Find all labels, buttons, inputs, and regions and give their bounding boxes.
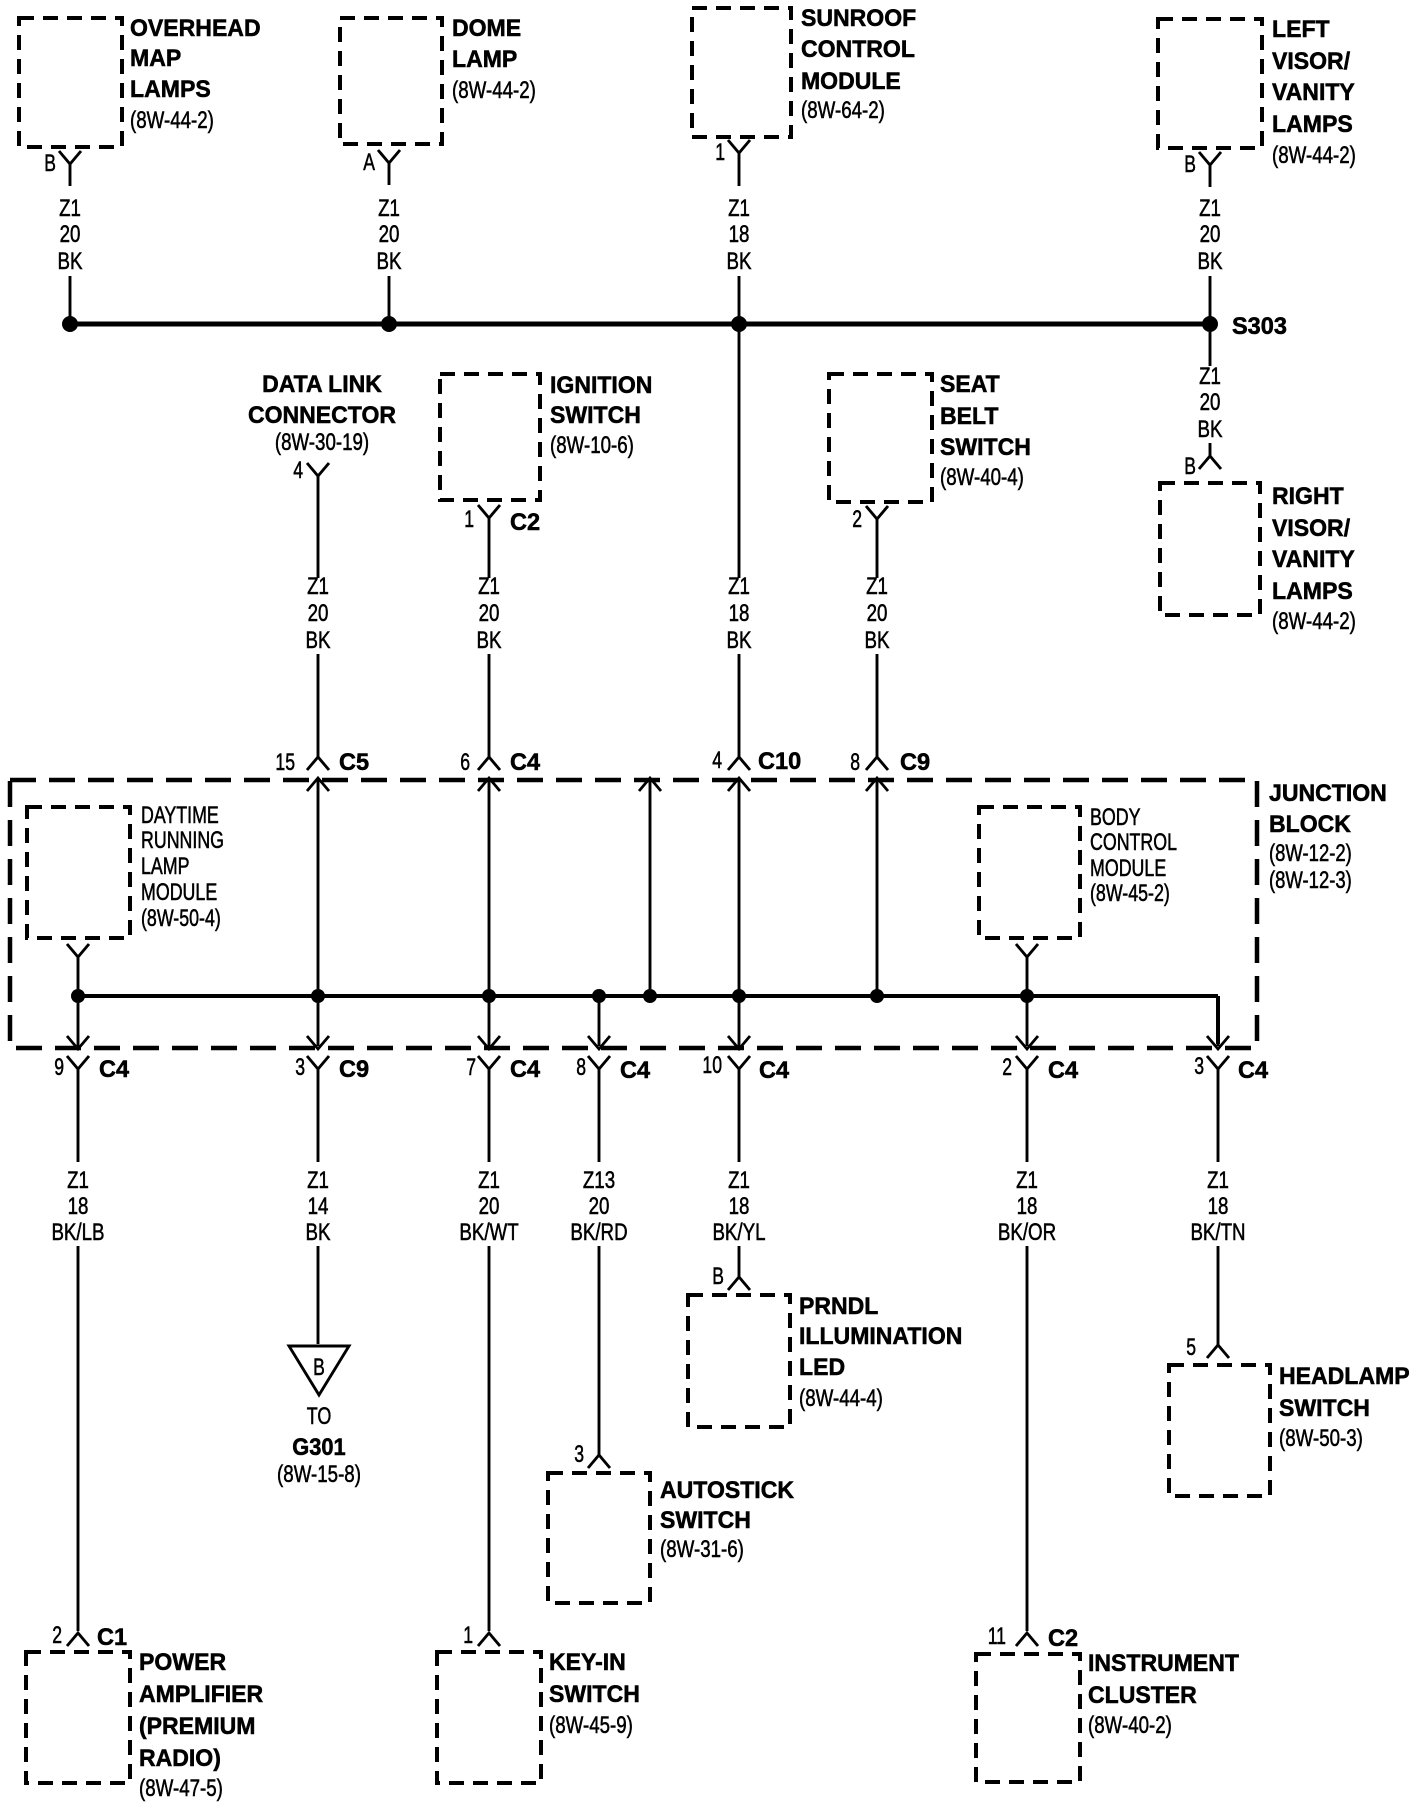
svg-text:DOME: DOME — [452, 15, 521, 42]
svg-text:BK: BK — [1198, 248, 1223, 275]
svg-text:(8W-30-19): (8W-30-19) — [275, 429, 369, 456]
wire: C9 lead into junction block — [866, 778, 888, 996]
svg-text:PRNDL: PRNDL — [799, 1293, 878, 1320]
wire: junction block exit lead at C9 pin 3 — [307, 996, 329, 1049]
svg-text:18: 18 — [1017, 1193, 1038, 1220]
svg-text:BK: BK — [1198, 416, 1223, 443]
svg-text:SWITCH: SWITCH — [660, 1507, 751, 1534]
svg-text:C9: C9 — [339, 1056, 369, 1083]
svg-text:BK: BK — [727, 248, 752, 275]
svg-text:20: 20 — [379, 221, 400, 248]
wire: junction block exit lead at C4 pin 8 — [588, 996, 610, 1049]
svg-text:HEADLAMP: HEADLAMP — [1279, 1363, 1410, 1390]
svg-text:2: 2 — [1002, 1054, 1012, 1081]
svg-text:20: 20 — [1200, 221, 1221, 248]
svg-text:Z1: Z1 — [1199, 195, 1221, 222]
svg-text:14: 14 — [308, 1193, 329, 1220]
svg-text:C1: C1 — [97, 1624, 127, 1651]
svg-text:C4: C4 — [510, 749, 541, 776]
svg-text:18: 18 — [729, 600, 750, 627]
wire Z1 18 BK from Sunroof Control Module to S303 bus — [727, 152, 752, 321]
svg-text:20: 20 — [60, 221, 81, 248]
connector C2 pin 1 of Ignition Switch — [464, 505, 540, 536]
svg-text:(8W-47-5): (8W-47-5) — [139, 1775, 223, 1802]
node: internal bus junction dot at BCM/C4-2 — [1020, 989, 1034, 1003]
svg-text:LEFT: LEFT — [1272, 16, 1330, 43]
connector C4 pin 10 at junction block bottom — [702, 1052, 789, 1162]
connector C4 pin 7 at junction block bottom — [466, 1054, 541, 1162]
connector of Body Control Module to internal bus — [1016, 944, 1038, 996]
svg-text:DAYTIME: DAYTIME — [141, 802, 219, 829]
component box: Junction Block (8W-12-2)(8W-12-3) — [10, 780, 1387, 1048]
svg-text:C4: C4 — [620, 1057, 651, 1084]
svg-text:18: 18 — [729, 1193, 750, 1220]
component box: Instrument Cluster (8W-40-2) — [976, 1650, 1239, 1782]
svg-text:CONTROL: CONTROL — [1090, 829, 1177, 856]
svg-text:(8W-45-2): (8W-45-2) — [1090, 880, 1170, 907]
connector C4 pin 6 at junction block top — [460, 749, 541, 776]
svg-text:10: 10 — [702, 1052, 722, 1079]
svg-text:18: 18 — [729, 221, 750, 248]
svg-text:SUNROOF: SUNROOF — [801, 5, 916, 32]
wire Z1 18 BK/LB from junction block C4 pin 9 to Power Amplifier — [51, 1167, 104, 1631]
svg-text:VANITY: VANITY — [1272, 79, 1355, 106]
svg-text:CLUSTER: CLUSTER — [1088, 1682, 1197, 1709]
svg-text:Z1: Z1 — [1207, 1167, 1229, 1194]
node: internal bus junction dot at C4-8 — [592, 989, 606, 1003]
svg-text:Z1: Z1 — [478, 573, 500, 600]
wire: junction block internal ground bus — [78, 996, 1218, 1044]
svg-text:BK: BK — [377, 248, 402, 275]
svg-text:3: 3 — [295, 1054, 305, 1081]
svg-text:BK: BK — [58, 248, 83, 275]
svg-text:9: 9 — [54, 1054, 64, 1081]
svg-text:20: 20 — [589, 1193, 610, 1220]
connector C2 pin 11 of Instrument Cluster — [988, 1623, 1078, 1652]
svg-text:B: B — [44, 150, 56, 177]
component box: PRNDL Illumination LED (8W-44-4) — [688, 1293, 962, 1427]
svg-text:RIGHT: RIGHT — [1272, 483, 1344, 510]
svg-text:20: 20 — [867, 600, 888, 627]
wire Z1 18 BK/TN from junction block C4 pin 3 to Headlamp Switch — [1190, 1167, 1245, 1345]
wire: junction block exit lead at C4 pin 3 — [1207, 1036, 1229, 1049]
svg-text:LAMPS: LAMPS — [1272, 111, 1353, 138]
svg-text:C4: C4 — [99, 1056, 130, 1083]
svg-text:MODULE: MODULE — [801, 68, 901, 95]
svg-text:(PREMIUM: (PREMIUM — [139, 1713, 256, 1740]
component box: Body Control Module (8W-45-2) inside junction block — [979, 804, 1177, 938]
svg-text:C4: C4 — [759, 1057, 790, 1084]
node: internal bus junction dot at C5/C9 — [311, 989, 325, 1003]
connector pin B of Overhead Map Lamps — [44, 150, 81, 177]
connector C5 pin 15 at junction block — [275, 749, 369, 776]
svg-text:8: 8 — [850, 749, 860, 776]
svg-text:LAMP: LAMP — [452, 46, 517, 73]
svg-text:BK: BK — [306, 627, 331, 654]
component box: Right Visor/Vanity Lamps (8W-44-2) — [1160, 483, 1356, 635]
component box: Headlamp Switch (8W-50-3) — [1169, 1363, 1410, 1496]
component box: Power Amplifier Premium Radio (8W-47-5) — [26, 1649, 263, 1802]
svg-text:SEAT: SEAT — [940, 371, 1000, 398]
connector C10 pin 4 at junction block top — [712, 747, 801, 775]
svg-text:Z1: Z1 — [59, 195, 81, 222]
svg-text:POWER: POWER — [139, 1649, 226, 1676]
svg-text:7: 7 — [466, 1054, 476, 1081]
component box: Autostick Switch (8W-31-6) — [548, 1473, 795, 1603]
connector C4 pin 9 at junction block bottom — [54, 1054, 130, 1162]
wire Z1 18 BK from Sunroof splice down to junction block C10 — [727, 330, 752, 757]
wire: junction block exit lead at C4 pin 10 — [728, 996, 750, 1049]
svg-text:C4: C4 — [1238, 1057, 1269, 1084]
component box: Dome Lamp (8W-44-2) — [340, 15, 536, 144]
connector pin B of Left Visor/Vanity Lamps — [1184, 151, 1221, 178]
svg-text:2: 2 — [852, 506, 862, 533]
svg-text:B: B — [712, 1263, 724, 1290]
svg-text:1: 1 — [715, 139, 725, 166]
svg-text:LED: LED — [799, 1354, 845, 1381]
svg-text:TO: TO — [307, 1403, 332, 1430]
svg-text:BK/YL: BK/YL — [712, 1219, 765, 1246]
connector pin B of Right Visor/Vanity Lamps — [1184, 453, 1221, 480]
node: splice S303 — [1202, 313, 1287, 340]
svg-text:Z1: Z1 — [1016, 1167, 1038, 1194]
svg-text:C2: C2 — [1048, 1625, 1078, 1652]
node: splice dot at Overhead Map Lamps wire on S303 bus — [62, 316, 78, 332]
wire: C4 pin 6 lead into junction block — [478, 778, 500, 996]
node: internal bus junction dot at C10/C4-10 — [732, 989, 746, 1003]
svg-text:SWITCH: SWITCH — [1279, 1395, 1370, 1422]
node: internal bus junction dot at feed — [643, 989, 657, 1003]
node: splice dot at Dome Lamp wire on S303 bus — [381, 316, 397, 332]
svg-text:20: 20 — [1200, 389, 1221, 416]
svg-text:(8W-45-9): (8W-45-9) — [549, 1712, 633, 1739]
wire: junction block exit lead at C4 pin 2 — [1016, 996, 1038, 1049]
svg-text:(8W-31-6): (8W-31-6) — [660, 1536, 744, 1563]
component box: Daytime Running Lamp Module (8W-50-4) inside junction block — [27, 802, 224, 938]
component label: Data Link Connector (8W-30-19) — [248, 371, 396, 456]
svg-text:15: 15 — [275, 749, 295, 776]
svg-text:CONTROL: CONTROL — [801, 36, 915, 63]
node: splice dot at Sunroof wire on S303 bus — [731, 316, 747, 332]
svg-text:20: 20 — [479, 600, 500, 627]
connector pin 4 of Data Link Connector — [293, 457, 329, 484]
wire: C5 lead into junction block — [307, 778, 329, 996]
svg-text:AMPLIFIER: AMPLIFIER — [139, 1681, 263, 1708]
connector C9 pin 3 at junction block bottom — [295, 1054, 369, 1162]
svg-text:CONNECTOR: CONNECTOR — [248, 402, 396, 429]
component box: Left Visor/Vanity Lamps (8W-44-2) — [1158, 16, 1356, 169]
svg-text:B: B — [313, 1354, 325, 1381]
wire Z1 20 BK from Overhead Map Lamps to splice S303 bus — [58, 163, 83, 321]
connector pin 1 of Key-In Switch — [463, 1622, 500, 1649]
svg-text:BK: BK — [865, 627, 890, 654]
component box: Overhead Map Lamps (8W-44-2) — [19, 15, 261, 147]
svg-text:Z1: Z1 — [67, 1167, 89, 1194]
svg-text:BLOCK: BLOCK — [1269, 811, 1352, 838]
connector pin A of Dome Lamp — [363, 149, 400, 176]
svg-text:MAP: MAP — [130, 45, 181, 72]
svg-text:C4: C4 — [1048, 1057, 1079, 1084]
connector pin 5 of Headlamp Switch — [1186, 1334, 1229, 1361]
wire: C10 lead into junction block — [728, 778, 750, 996]
svg-text:AUTOSTICK: AUTOSTICK — [660, 1477, 795, 1504]
svg-text:(8W-64-2): (8W-64-2) — [801, 97, 885, 124]
svg-text:(8W-12-2): (8W-12-2) — [1269, 840, 1352, 867]
svg-text:SWITCH: SWITCH — [940, 434, 1031, 461]
svg-text:(8W-44-2): (8W-44-2) — [130, 107, 214, 134]
svg-text:20: 20 — [479, 1193, 500, 1220]
svg-text:B: B — [1184, 151, 1196, 178]
node: internal bus junction dot at DRL — [71, 989, 85, 1003]
svg-text:8: 8 — [576, 1054, 586, 1081]
connector C4 pin 3 at junction block bottom — [1194, 1053, 1269, 1162]
svg-text:JUNCTION: JUNCTION — [1269, 780, 1387, 807]
svg-text:(8W-50-4): (8W-50-4) — [141, 905, 221, 932]
svg-text:1: 1 — [464, 506, 474, 533]
connector of Daytime Running Lamp Module to internal bus — [67, 944, 89, 996]
svg-text:RUNNING: RUNNING — [141, 827, 224, 854]
connector pin 2 of Seat Belt Switch — [852, 506, 888, 533]
svg-text:Z1: Z1 — [378, 195, 400, 222]
svg-text:B: B — [1184, 453, 1196, 480]
svg-text:G301: G301 — [292, 1434, 345, 1461]
component box: Key-In Switch (8W-45-9) — [437, 1649, 640, 1783]
node: internal bus junction dot at C9 — [870, 989, 884, 1003]
svg-text:BK/RD: BK/RD — [570, 1219, 627, 1246]
svg-text:C5: C5 — [339, 749, 369, 776]
connector C4 pin 8 at junction block bottom — [576, 1054, 651, 1162]
svg-text:MODULE: MODULE — [1090, 855, 1166, 882]
node: internal bus junction dot at C4-7 — [482, 989, 496, 1003]
svg-text:Z1: Z1 — [1199, 363, 1221, 390]
connector pin B of PRNDL Illumination LED — [712, 1263, 750, 1290]
wire Z1 20 BK/WT from junction block C4 pin 7 to Key-In Switch — [459, 1167, 519, 1631]
svg-text:BODY: BODY — [1090, 804, 1141, 831]
component box: Sunroof Control Module (8W-64-2) — [692, 5, 916, 137]
wire Z13 20 BK/RD from junction block C4 pin 8 to Autostick Switch — [570, 1167, 627, 1455]
svg-text:VISOR/: VISOR/ — [1272, 48, 1350, 75]
svg-text:BK: BK — [727, 627, 752, 654]
wire Z1 20 BK from Data Link Connector to junction block C5 — [306, 476, 331, 757]
wire Z1 20 BK from splice S303 down to Right Visor/Vanity Lamps — [1198, 332, 1223, 457]
svg-text:S303: S303 — [1232, 313, 1287, 340]
svg-text:C4: C4 — [510, 1056, 541, 1083]
svg-text:4: 4 — [293, 457, 303, 484]
ground symbol B to G301 (8W-15-8) — [277, 1346, 361, 1488]
wire Z1 20 BK from Seat Belt Switch to junction block C9 — [865, 519, 890, 757]
svg-text:11: 11 — [988, 1623, 1006, 1650]
svg-text:(8W-15-8): (8W-15-8) — [277, 1461, 361, 1488]
svg-text:6: 6 — [460, 749, 470, 776]
wire Z1 14 BK from junction block C9 pin 3 to ground G301 — [306, 1167, 331, 1344]
svg-text:C2: C2 — [510, 509, 540, 536]
svg-text:(8W-40-2): (8W-40-2) — [1088, 1712, 1172, 1739]
svg-text:SWITCH: SWITCH — [549, 1681, 640, 1708]
svg-text:BK/LB: BK/LB — [51, 1219, 104, 1246]
svg-text:C10: C10 — [758, 748, 801, 775]
svg-text:Z1: Z1 — [478, 1167, 500, 1194]
svg-text:(8W-44-2): (8W-44-2) — [452, 77, 536, 104]
wire Z1 20 BK from Dome Lamp to S303 bus — [377, 162, 402, 321]
svg-text:Z1: Z1 — [728, 1167, 750, 1194]
svg-text:Z1: Z1 — [866, 573, 888, 600]
connector C4 pin 2 at junction block bottom — [1002, 1054, 1079, 1162]
svg-text:5: 5 — [1186, 1334, 1196, 1361]
svg-text:3: 3 — [1194, 1053, 1204, 1080]
svg-text:(8W-12-3): (8W-12-3) — [1269, 867, 1352, 894]
svg-text:OVERHEAD: OVERHEAD — [130, 15, 261, 42]
connector pin 3 of Autostick Switch — [574, 1441, 610, 1468]
svg-text:KEY-IN: KEY-IN — [549, 1649, 626, 1676]
svg-text:(8W-50-3): (8W-50-3) — [1279, 1425, 1363, 1452]
connector C1 pin 2 of Power Amplifier — [52, 1622, 127, 1651]
svg-text:(8W-44-2): (8W-44-2) — [1272, 608, 1356, 635]
wire: junction block exit lead at C4 pin 7 — [478, 996, 500, 1049]
svg-text:BELT: BELT — [940, 403, 999, 430]
wire: junction block exit lead at C4 pin 9 — [67, 996, 89, 1049]
svg-text:Z13: Z13 — [583, 1167, 615, 1194]
connector C9 pin 8 at junction block top — [850, 749, 930, 776]
svg-text:IGNITION: IGNITION — [550, 372, 652, 399]
svg-text:C9: C9 — [900, 749, 930, 776]
wire Z1 20 BK from Ignition Switch to junction block C4 — [477, 518, 502, 757]
svg-text:LAMPS: LAMPS — [1272, 578, 1353, 605]
svg-text:1: 1 — [463, 1622, 473, 1649]
svg-text:BK/TN: BK/TN — [1190, 1219, 1245, 1246]
wire: ground bus S303 horizontal run — [70, 322, 1210, 327]
svg-text:Z1: Z1 — [728, 195, 750, 222]
wire Z1 18 BK/OR from junction block C4 pin 2 to Instrument Cluster — [998, 1167, 1056, 1631]
wire Z1 20 BK from Left Visor/Vanity Lamps to splice S303 — [1198, 164, 1223, 321]
svg-text:INSTRUMENT: INSTRUMENT — [1088, 1650, 1239, 1677]
component box: Seat Belt Switch (8W-40-4) — [829, 371, 1031, 502]
wire: internal junction block feed arrow — [639, 778, 661, 996]
svg-text:18: 18 — [68, 1193, 89, 1220]
svg-text:BK/WT: BK/WT — [459, 1219, 519, 1246]
svg-text:4: 4 — [712, 747, 722, 774]
svg-text:(8W-40-4): (8W-40-4) — [940, 464, 1024, 491]
svg-text:Z1: Z1 — [728, 573, 750, 600]
svg-text:LAMPS: LAMPS — [130, 76, 211, 103]
svg-text:BK: BK — [477, 627, 502, 654]
svg-text:RADIO): RADIO) — [139, 1745, 221, 1772]
svg-text:2: 2 — [52, 1622, 62, 1649]
svg-text:MODULE: MODULE — [141, 879, 217, 906]
svg-text:BK/OR: BK/OR — [998, 1219, 1056, 1246]
svg-text:(8W-10-6): (8W-10-6) — [550, 432, 634, 459]
svg-text:20: 20 — [308, 600, 329, 627]
svg-text:(8W-44-4): (8W-44-4) — [799, 1385, 883, 1412]
component box: Ignition Switch (8W-10-6) — [440, 372, 652, 500]
connector pin 1 of Sunroof Control Module — [715, 139, 750, 166]
svg-text:18: 18 — [1208, 1193, 1229, 1220]
svg-text:Z1: Z1 — [307, 1167, 329, 1194]
svg-text:A: A — [363, 149, 375, 176]
svg-text:3: 3 — [574, 1441, 584, 1468]
wire Z1 18 BK/YL from junction block C4 pin 10 to PRNDL Illumination LED — [712, 1167, 765, 1277]
svg-text:DATA LINK: DATA LINK — [262, 371, 382, 398]
svg-text:LAMP: LAMP — [141, 853, 190, 880]
svg-text:Z1: Z1 — [307, 573, 329, 600]
svg-text:VANITY: VANITY — [1272, 546, 1355, 573]
svg-text:(8W-44-2): (8W-44-2) — [1272, 142, 1356, 169]
svg-text:SWITCH: SWITCH — [550, 402, 641, 429]
svg-text:ILLUMINATION: ILLUMINATION — [799, 1323, 962, 1350]
svg-text:BK: BK — [306, 1219, 331, 1246]
svg-text:VISOR/: VISOR/ — [1272, 515, 1350, 542]
